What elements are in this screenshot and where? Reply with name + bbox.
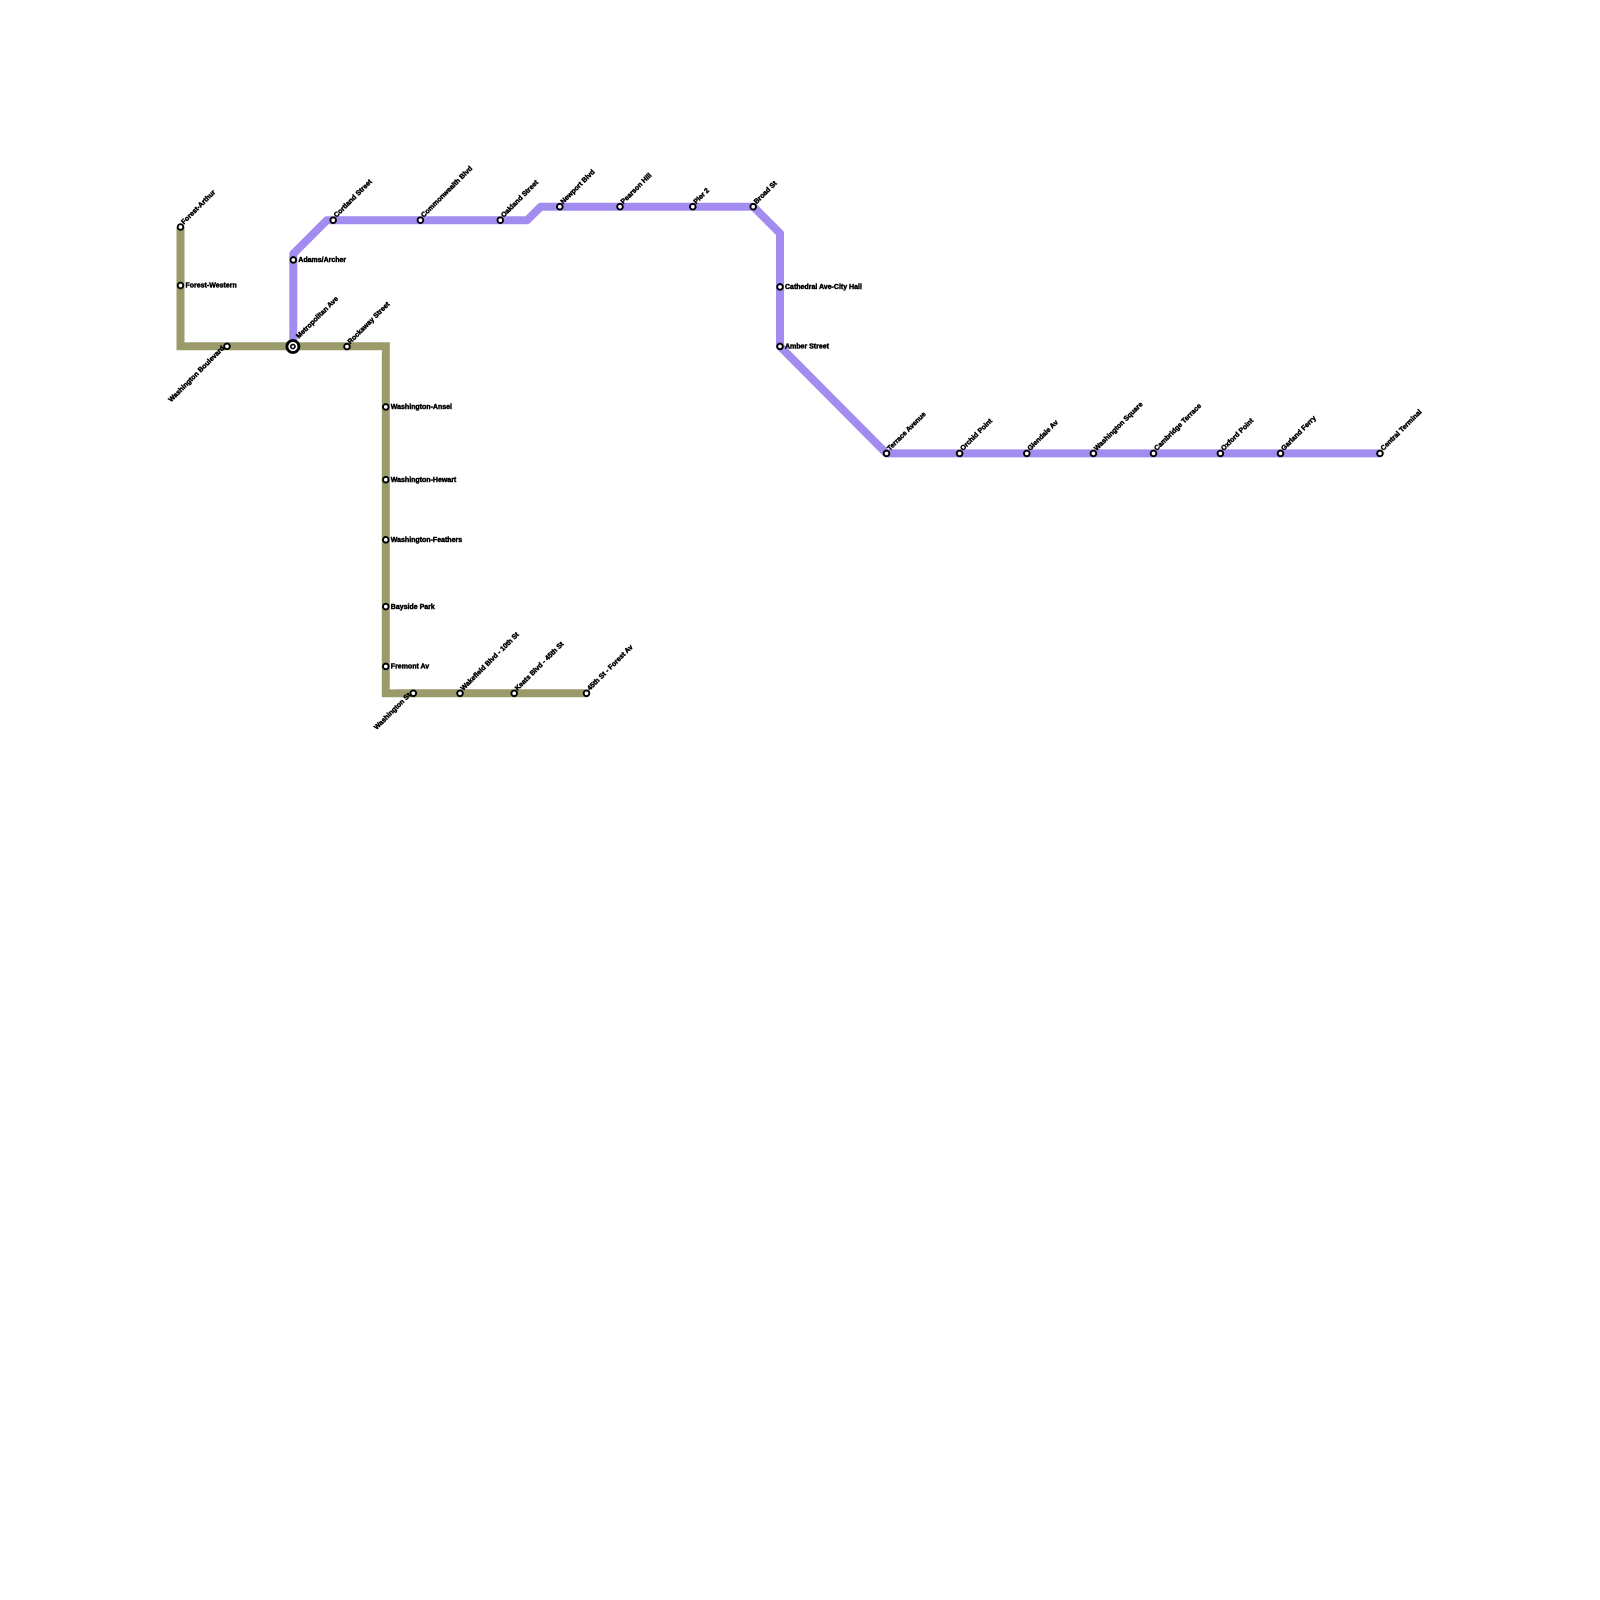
label Washington-Feathers [391, 537, 462, 544]
label Washington Boulevard [168, 345, 227, 404]
label Orchid Point [959, 417, 994, 452]
station at 886,453 [884, 451, 890, 457]
olive metro line [181, 227, 587, 693]
label Washington Square [1093, 401, 1144, 452]
station at 460,693 [457, 691, 463, 697]
station at 347,347 [344, 344, 350, 350]
station at 960,453 [957, 451, 963, 457]
svg-text:Amber Street: Amber Street [785, 344, 830, 351]
label Rockaway Street [347, 301, 392, 346]
label Cathedral Ave-City Hall [785, 284, 862, 291]
svg-text:Bayside Park: Bayside Park [391, 604, 435, 611]
station at 333,220 [330, 217, 336, 223]
label Washington St [373, 692, 413, 732]
label Keats Blvd - 45th St [514, 640, 566, 692]
station at 693,207 [690, 204, 696, 210]
station at 620,207 [617, 204, 623, 210]
station at 413,693 [411, 691, 417, 697]
station at 1154,453 [1151, 451, 1157, 457]
label Cortland Street [333, 178, 374, 219]
label Pier 2 [693, 187, 712, 206]
svg-text:Washington-Hewart: Washington-Hewart [391, 477, 457, 484]
station at 780,287 [777, 284, 783, 290]
station at 386,407 [383, 404, 389, 410]
station at 586,693 [584, 691, 590, 697]
label Oakland Street [500, 179, 540, 219]
label Terrace Avenue [886, 411, 927, 452]
station at 1280,453 [1278, 451, 1284, 457]
label Forest-Arthur [180, 189, 217, 226]
station at 1220,453 [1218, 451, 1224, 457]
label Central Terminal [1380, 409, 1424, 453]
svg-text:Fremont Av: Fremont Av [391, 664, 429, 671]
label Newport Blvd [560, 169, 597, 206]
label Garland Ferry [1280, 415, 1317, 452]
label Amber Street [785, 344, 830, 351]
station at 180,227 [178, 224, 184, 230]
station at 1380,453 [1377, 451, 1383, 457]
station at 500,220 [498, 217, 504, 223]
svg-text:Cathedral Ave-City Hall: Cathedral Ave-City Hall [785, 284, 862, 291]
label Oxford Point [1220, 417, 1255, 452]
label Wakefield Blvd - 10th St [460, 631, 521, 692]
label Broad St [753, 180, 779, 206]
label Forest-Western [186, 283, 237, 290]
station at 227,346 [224, 344, 230, 350]
label Adams/Archer [298, 257, 346, 264]
label Washington-Hewart [391, 477, 457, 484]
station at 560,207 [557, 204, 563, 210]
station at 780,346 [777, 344, 783, 350]
station at 514,693 [511, 691, 517, 697]
label Metropolitan Ave (interchange) [295, 296, 340, 341]
station at 386,540 [383, 537, 389, 543]
station at 386,607 [383, 604, 389, 610]
station at 1093,453 [1091, 451, 1097, 457]
station at 386,480 [383, 477, 389, 483]
label Cambridge Terrace [1153, 403, 1203, 453]
label Washington-Ansel [391, 404, 452, 411]
label Pearson Hill [620, 172, 654, 206]
station at 180,286 [178, 283, 184, 289]
station at 293,260 [291, 257, 297, 263]
station at 420,220 [418, 217, 424, 223]
label Fremont Av [391, 664, 429, 671]
svg-text:Washington-Ansel: Washington-Ansel [391, 404, 452, 411]
svg-text:Washington-Feathers: Washington-Feathers [391, 537, 462, 544]
purple metro line [293, 207, 1380, 454]
label 45th St - Forest Av [586, 644, 634, 692]
station at 753,207 [750, 204, 756, 210]
station at 1027,453 [1024, 451, 1030, 457]
svg-text:Adams/Archer: Adams/Archer [298, 257, 346, 264]
label Bayside Park [391, 604, 435, 611]
svg-text:Forest-Western: Forest-Western [186, 283, 237, 290]
label Commonwealth Blvd [420, 165, 474, 219]
interchange station Metropolitan Ave [287, 341, 299, 353]
label Glendale Av [1027, 419, 1060, 452]
station at 386,666 [383, 664, 389, 670]
